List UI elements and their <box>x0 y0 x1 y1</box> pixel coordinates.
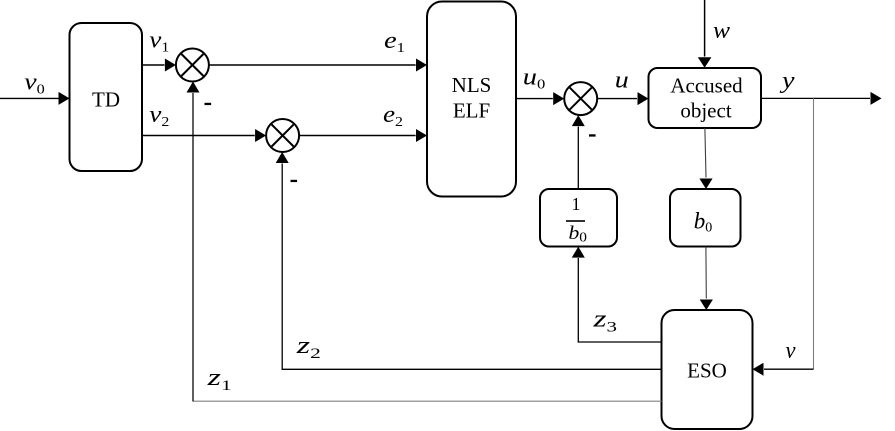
block ESO <box>662 310 753 429</box>
minus sign at S3 <box>589 134 596 136</box>
wire Accused object to b0 <box>699 128 712 189</box>
block Accused object <box>649 68 762 128</box>
wire v1 <box>142 59 176 72</box>
summing junction S2 <box>266 119 299 152</box>
wire u0 <box>516 92 564 105</box>
wire y output <box>761 92 882 105</box>
svg-text:v: v <box>786 338 796 364</box>
wire e2 <box>299 129 427 142</box>
wire z1 vertical to S1 <box>187 82 200 402</box>
summing junction S3 <box>564 82 597 115</box>
svg-text:1: 1 <box>572 194 581 214</box>
wire v feedback horizontal into ESO <box>753 363 814 376</box>
svg-text:ELF: ELF <box>453 99 490 123</box>
wire w disturbance input <box>698 0 712 68</box>
wire z1 horizontal from ESO <box>192 400 661 402</box>
wire z2 from ESO to S2 <box>276 152 662 369</box>
block b0 <box>670 189 741 247</box>
svg-text:ESO: ESO <box>687 359 727 383</box>
minus sign at S1 <box>205 103 212 105</box>
block NLS ELF <box>427 2 516 197</box>
svg-text:u: u <box>615 68 629 94</box>
wire b0 to ESO <box>700 247 713 311</box>
svg-text:TD: TD <box>92 88 120 112</box>
block 1/b0 <box>540 189 617 247</box>
wire u <box>597 92 648 105</box>
wire 1/b0 to S3 <box>572 115 585 189</box>
summing junction S1 <box>176 49 209 82</box>
wire z3 from ESO to 1/b0 <box>572 247 662 342</box>
wire v0 input <box>0 92 70 105</box>
svg-text:NLS: NLS <box>452 73 492 97</box>
wire v2 <box>142 129 266 142</box>
svg-text:Accused: Accused <box>670 74 743 98</box>
block TD <box>70 23 143 171</box>
svg-text:w: w <box>713 18 730 44</box>
minus sign at S2 <box>291 180 298 182</box>
wire v feedback vertical from y line <box>813 98 815 369</box>
svg-text:object: object <box>680 99 731 123</box>
svg-text:y: y <box>780 68 795 94</box>
wire e1 <box>209 59 427 72</box>
